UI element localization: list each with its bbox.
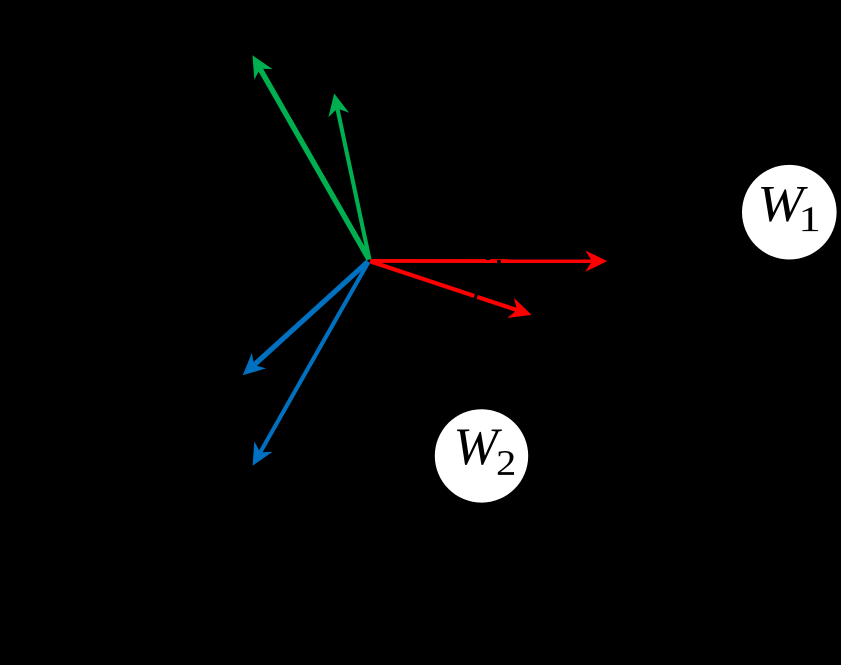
node W1 circle: [742, 165, 837, 260]
vector u2 (red diagonal, dashed gap): [370, 261, 532, 318]
black notch 1 on red horizontal: [486, 258, 490, 260]
vector v2 (green short): [328, 94, 369, 260]
node W2 label subscript 2: [498, 451, 514, 475]
node W1 label W: [761, 187, 808, 222]
vector u1 (red horizontal): [371, 251, 608, 272]
vector v1 (green long): [253, 55, 369, 259]
vector w1 (blue upper): [243, 262, 368, 376]
node W2 circle: [435, 409, 528, 502]
black notch 2 on red horizontal: [497, 260, 501, 264]
node W2 label W: [457, 430, 502, 465]
vector w2 (blue lower): [253, 262, 369, 466]
node W1 label subscript 1: [802, 207, 818, 231]
